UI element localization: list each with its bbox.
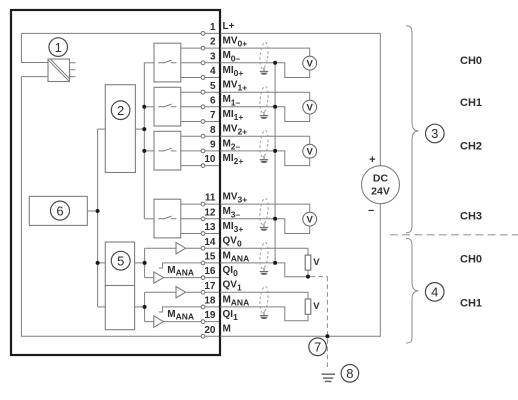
wire MANA tap pin 15 — [159, 263, 220, 268]
callout circle 7 (functional earth) — [309, 338, 327, 356]
shield clamp symbol CH3 in — [260, 224, 269, 231]
load resistor CH0 output — [305, 255, 320, 270]
svg-text:V: V — [307, 59, 314, 70]
wire S1 to pin 5 — [181, 91, 220, 93]
svg-text:3: 3 — [210, 51, 216, 62]
junction dot (144.3,129.1) — [142, 127, 146, 131]
svg-text:CH3: CH3 — [460, 210, 482, 222]
label CH1 (output) — [460, 298, 482, 310]
wire block5 upper left to bus B — [98, 262, 106, 264]
svg-text:10: 10 — [204, 154, 216, 165]
svg-text:6: 6 — [56, 203, 63, 218]
label CH1 (input) — [460, 97, 482, 109]
wire bus to amp pin 17 — [145, 291, 176, 293]
svg-text:M: M — [223, 206, 231, 217]
svg-text:ANA: ANA — [176, 267, 194, 277]
block 5 (DAC upper) — [105, 242, 134, 286]
block 2 (ADC) — [105, 85, 135, 173]
pin 14 terminal — [201, 236, 242, 251]
svg-text:3–: 3– — [231, 209, 241, 219]
pin 19 terminal — [201, 309, 238, 324]
bus B vertical (block2 to block5) — [97, 129, 99, 307]
wire MV1+ to voltmeter top — [220, 92, 310, 100]
svg-text:3: 3 — [431, 126, 438, 141]
pin 4 terminal — [201, 65, 243, 80]
wire block5 lower right to amp bus — [135, 306, 145, 308]
svg-text:0: 0 — [233, 268, 238, 278]
svg-text:9: 9 — [210, 140, 216, 151]
svg-text:V: V — [307, 215, 314, 226]
junction dot (144.3,150.9) — [142, 149, 146, 153]
pin 10 terminal — [201, 153, 243, 168]
shield clamp symbol CH1 out — [260, 312, 269, 319]
wire L+ external to DC+ — [220, 33, 380, 165]
svg-text:MV: MV — [223, 192, 238, 203]
svg-text:20: 20 — [204, 325, 216, 336]
svg-text:1: 1 — [55, 40, 62, 55]
cable shield CH1 in (dashed) — [259, 86, 270, 113]
svg-text:2: 2 — [117, 103, 124, 118]
svg-text:MV: MV — [223, 36, 238, 47]
wire S1 to pin 6 — [181, 106, 220, 108]
wire block5 lower left from bus B — [98, 306, 106, 308]
op-amp current output amp QI0 — [154, 272, 164, 283]
wire S3 to pin 13 — [181, 233, 220, 235]
svg-text:V: V — [307, 103, 314, 114]
block 6 (backplane interface) — [29, 196, 87, 225]
svg-text:2+: 2+ — [234, 156, 244, 166]
callout circle 5 — [111, 251, 130, 270]
junction dot (275.1,218.8) — [273, 217, 277, 221]
wire block5 upper right to amp bus — [135, 262, 145, 264]
svg-text:MI: MI — [223, 109, 234, 120]
svg-text:8: 8 — [346, 366, 353, 381]
op-amp U1 voltage output amp QV0 — [176, 243, 186, 254]
svg-text:1+: 1+ — [238, 83, 248, 93]
earth ground symbol — [321, 374, 335, 381]
pin 15 terminal — [201, 250, 249, 265]
svg-text:QV: QV — [223, 280, 238, 291]
wire bus to amp pin 16 — [145, 277, 154, 279]
wire M2- to M bus and voltmeter bottom — [220, 151, 310, 166]
svg-text:CH0: CH0 — [460, 55, 482, 67]
brace for analog outputs (4) — [406, 238, 419, 343]
pin 7 terminal — [201, 109, 243, 124]
svg-text:CH1: CH1 — [460, 97, 482, 109]
svg-text:1: 1 — [233, 312, 238, 322]
callout circle 8 (ground) — [341, 365, 359, 383]
svg-text:+: + — [369, 154, 375, 166]
label CH0 (output) — [460, 254, 482, 266]
junction dot (327.4,336.3) — [325, 334, 329, 338]
wire MANA return CH0 out — [220, 263, 308, 277]
label + polarity — [369, 154, 375, 166]
svg-text:ANA: ANA — [231, 253, 249, 263]
shield clamp symbol CH1 in — [260, 112, 269, 119]
wire bus A to S0 — [144, 62, 154, 64]
pin 3 terminal — [201, 50, 240, 64]
pin 16 terminal — [201, 265, 238, 280]
svg-text:3+: 3+ — [234, 224, 244, 234]
label - polarity — [368, 204, 374, 216]
svg-text:M: M — [167, 309, 175, 320]
svg-text:M: M — [223, 50, 231, 61]
voltmeter V CH3 — [303, 212, 317, 226]
svg-text:7: 7 — [210, 110, 216, 121]
wire amp output to pin 14 — [186, 247, 220, 249]
label CH0 (input) — [460, 55, 482, 67]
junction dot (275.1,62.8) — [273, 61, 277, 65]
wire L+ internal from left loop to pin 1 — [21, 33, 220, 62]
callout circle 4 — [425, 283, 444, 302]
svg-text:2: 2 — [210, 37, 216, 48]
svg-text:0: 0 — [237, 239, 242, 249]
wire amp output to pin 19 — [164, 321, 220, 323]
wire DC- to M external — [220, 204, 380, 336]
label CH3 (input) — [460, 210, 482, 222]
pin 11 terminal — [201, 192, 247, 207]
pin 12 terminal — [201, 206, 240, 221]
pin 5 terminal — [201, 80, 247, 95]
load resistor CH1 output — [305, 299, 320, 314]
svg-text:QI: QI — [223, 265, 234, 276]
wire amp output to pin 16 — [164, 277, 220, 279]
svg-text:V: V — [307, 147, 314, 158]
wire QV0 to load resistor top — [220, 248, 308, 255]
svg-text:1: 1 — [210, 22, 216, 33]
svg-text:0+: 0+ — [234, 68, 244, 78]
wire bus to amp pin 14 — [145, 247, 176, 249]
wire bus to amp pin 19 — [145, 321, 154, 323]
svg-text:M: M — [223, 250, 231, 261]
amp bus CH1 out vertical — [144, 292, 146, 321]
bus A vertical (switch boxes feed) — [143, 63, 145, 219]
wire S2 to pin 8 — [181, 135, 220, 137]
svg-text:4: 4 — [431, 285, 438, 300]
cable shield CH0 in (dashed) — [259, 42, 270, 69]
svg-text:17: 17 — [204, 281, 216, 292]
wire bus A to S3 — [144, 218, 154, 220]
switch box S0 (input range switch CH0) — [154, 43, 181, 82]
pin 8 terminal — [201, 124, 247, 139]
svg-text:1+: 1+ — [234, 112, 244, 122]
op-amp voltage output amp QV1 — [176, 287, 186, 298]
pin 2 terminal — [201, 36, 247, 50]
svg-text:MV: MV — [223, 80, 238, 91]
svg-text:V: V — [313, 301, 320, 312]
svg-text:DC: DC — [373, 173, 389, 185]
junction dot (144.6,306.9) — [143, 305, 147, 309]
svg-text:8: 8 — [210, 125, 216, 136]
wire S2 to pin 10 — [181, 165, 220, 167]
label MANA internal node (pin 15) — [167, 265, 194, 277]
svg-text:M: M — [223, 138, 231, 149]
switch box S2 (input range switch CH2) — [154, 131, 181, 170]
cable shield CH1 out (dashed) — [259, 286, 270, 313]
svg-text:M: M — [223, 94, 231, 105]
svg-text:11: 11 — [205, 193, 216, 204]
wire bus A to S2 — [144, 150, 154, 152]
wire S0 to pin 2 — [181, 47, 220, 49]
callout circle 6 — [51, 201, 70, 220]
svg-text:M: M — [223, 294, 231, 305]
brace for analog inputs (3) — [406, 26, 419, 233]
svg-text:5: 5 — [117, 253, 124, 268]
pin 20 terminal — [201, 324, 231, 338]
svg-text:QV: QV — [223, 236, 238, 247]
svg-text:4: 4 — [210, 66, 216, 77]
junction dot (144.6,262.9) — [143, 261, 147, 265]
svg-text:5: 5 — [210, 81, 216, 92]
wire QV1 to load resistor top — [220, 292, 308, 299]
svg-text:15: 15 — [204, 252, 216, 263]
wire M1- to M bus and voltmeter bottom — [220, 107, 310, 122]
svg-text:MI: MI — [223, 65, 234, 76]
wire S1 to pin 7 — [181, 121, 220, 123]
svg-text:MI: MI — [223, 153, 234, 164]
voltmeter V CH2 — [303, 144, 317, 158]
wire M internal from power supply to pin 20 — [21, 77, 220, 337]
svg-text:6: 6 — [210, 95, 216, 106]
pin 9 terminal — [201, 138, 240, 153]
svg-text:16: 16 — [204, 266, 216, 277]
shield clamp symbol CH0 in — [260, 68, 269, 75]
svg-text:2+: 2+ — [238, 127, 248, 137]
wire S3 to pin 11 — [181, 203, 220, 205]
DC 24V source — [362, 166, 400, 204]
label CH2 (input) — [460, 140, 482, 152]
svg-text:CH1: CH1 — [460, 298, 482, 310]
op-amp current output amp QI1 — [154, 316, 164, 327]
junction dot (97.6,211) — [96, 209, 100, 213]
cable shield CH0 out (dashed) — [259, 242, 270, 269]
wire block2 left to bus B — [98, 128, 106, 130]
wire S0 to pin 3 — [181, 62, 220, 64]
wire M3- to M bus and voltmeter bottom — [220, 219, 310, 234]
callout circle 3 — [426, 124, 445, 143]
pin 18 terminal — [201, 294, 249, 309]
svg-text:1: 1 — [237, 283, 242, 293]
wire MV3+ to voltmeter top — [220, 204, 310, 212]
module enclosure border — [11, 10, 220, 355]
callout circle 1 — [49, 38, 68, 57]
wire block2 right to bus A — [135, 128, 144, 130]
wire bus A to S1 — [144, 106, 154, 108]
junction dot (97.6,262.9) — [96, 261, 100, 265]
wire M0- to M bus and voltmeter bottom — [220, 63, 310, 78]
svg-text:CH2: CH2 — [460, 140, 482, 152]
cable shield CH3 in (dashed) — [259, 198, 270, 225]
wire MANA tap pin 18 — [159, 307, 220, 312]
svg-text:V: V — [313, 257, 320, 268]
svg-text:0+: 0+ — [238, 39, 248, 49]
svg-text:–: – — [368, 204, 374, 216]
voltmeter V CH1 — [303, 100, 317, 114]
svg-text:14: 14 — [204, 237, 216, 248]
svg-text:3+: 3+ — [238, 195, 248, 205]
junction dot (275.1,106.8) — [273, 105, 277, 109]
shield clamp symbol CH2 in — [260, 156, 269, 163]
dashed separator inputs/outputs — [390, 234, 518, 236]
pin 17 terminal — [201, 280, 242, 295]
svg-text:ANA: ANA — [176, 312, 194, 322]
block 5 lower section — [105, 286, 134, 330]
wire MV2+ to voltmeter top — [220, 136, 310, 144]
shield clamp symbol CH0 out — [260, 268, 269, 275]
voltmeter V CH0 — [303, 56, 317, 70]
wire MV0+ to voltmeter top — [220, 48, 310, 56]
wire S0 to pin 4 — [181, 77, 220, 79]
pin 1 terminal — [201, 21, 235, 36]
svg-text:7: 7 — [314, 340, 321, 355]
cable shield CH2 in (dashed) — [259, 130, 270, 157]
svg-text:QI: QI — [223, 309, 234, 320]
M sense bus vertical — [274, 63, 276, 263]
svg-text:0–: 0– — [231, 53, 241, 63]
wire amp output to pin 17 — [186, 291, 220, 293]
svg-text:13: 13 — [204, 222, 216, 233]
wire block6 to bus B — [87, 210, 97, 212]
junction dot (308,276.6) — [306, 275, 310, 279]
amp bus CH0 out vertical — [144, 248, 146, 277]
wire S2 to pin 9 — [181, 150, 220, 152]
dashed line load return to ground bus — [311, 277, 328, 370]
junction dot (275.1,150.9) — [273, 149, 277, 153]
svg-text:19: 19 — [204, 310, 216, 321]
svg-text:12: 12 — [204, 207, 216, 218]
pin 6 terminal — [201, 94, 240, 109]
svg-text:MV: MV — [223, 124, 238, 135]
svg-text:CH0: CH0 — [460, 254, 482, 266]
wire S3 to pin 12 — [181, 218, 220, 220]
svg-text:MI: MI — [223, 221, 234, 232]
svg-text:24V: 24V — [371, 186, 390, 198]
svg-text:18: 18 — [204, 296, 216, 307]
pin 13 terminal — [201, 221, 243, 236]
switch box S3 (input range switch CH3) — [154, 199, 181, 238]
svg-text:2–: 2– — [231, 141, 241, 151]
junction dot (275.1,262.9) — [273, 261, 277, 265]
junction dot (144.3,106.8) — [142, 105, 146, 109]
svg-text:1–: 1– — [231, 97, 241, 107]
switch box S1 (input range switch CH1) — [154, 87, 181, 126]
power supply U1 (internal DC converter) — [48, 59, 76, 82]
svg-text:M: M — [167, 265, 175, 276]
wire MANA return CH1 out — [220, 307, 308, 321]
callout circle 2 — [111, 101, 130, 120]
label MANA internal node (pin 18) — [167, 309, 194, 321]
svg-text:M: M — [223, 324, 231, 335]
svg-text:L+: L+ — [223, 21, 235, 32]
svg-text:ANA: ANA — [231, 297, 249, 307]
